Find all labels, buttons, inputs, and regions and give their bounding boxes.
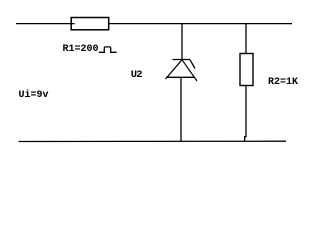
wire R2 branch top vertical — [245, 24, 247, 54]
wire top-left segment — [16, 23, 75, 25]
wire diode branch top vertical — [181, 24, 183, 60]
zener diode U2 triangle base — [166, 76, 195, 78]
svg-text:Ui=9v: Ui=9v — [19, 89, 49, 101]
zener diode U2 cathode bar — [173, 59, 191, 61]
resistor R2 — [240, 54, 253, 86]
zener diode U2 cathode bent tail — [190, 60, 195, 69]
svg-text:U2: U2 — [131, 69, 142, 81]
wire top-right segment — [109, 23, 292, 25]
zener diode U2 triangle right side — [182, 60, 197, 81]
wire R2 branch bottom vertical with jog — [245, 86, 246, 142]
pulse waveform symbol — [99, 47, 117, 52]
wire bottom — [19, 140, 287, 142]
wire diode branch bottom vertical — [180, 77, 182, 141]
svg-text:R2=1K: R2=1K — [268, 77, 298, 88]
svg-text:R1=200: R1=200 — [63, 44, 99, 55]
resistor R1 — [71, 18, 109, 30]
zener diode U2 triangle left side — [166, 60, 183, 79]
